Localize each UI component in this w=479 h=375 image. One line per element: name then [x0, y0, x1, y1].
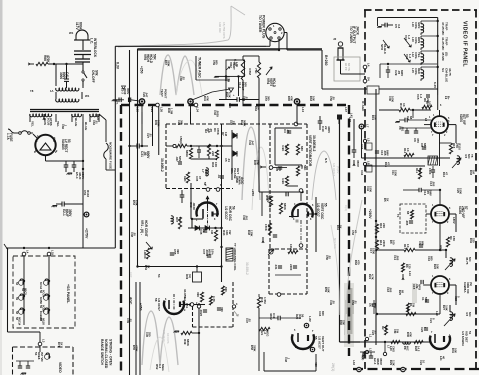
- svg-text:L2: L2: [369, 348, 373, 352]
- svg-text:47: 47: [387, 162, 391, 166]
- svg-text:50V: 50V: [178, 156, 182, 161]
- svg-text:C42: C42: [360, 170, 364, 176]
- svg-text:10%: 10%: [210, 249, 214, 255]
- svg-text:.001: .001: [245, 215, 249, 221]
- svg-text:680: 680: [300, 146, 304, 151]
- svg-text:W1: W1: [85, 94, 90, 98]
- svg-text:IF AGC: IF AGC: [361, 101, 365, 112]
- svg-text:6.8K: 6.8K: [135, 200, 139, 206]
- svg-text:L5: L5: [367, 138, 371, 142]
- svg-text:CHO: CHO: [392, 346, 396, 352]
- svg-text:10K: 10K: [436, 264, 440, 269]
- svg-text:680: 680: [430, 256, 434, 261]
- svg-text:1K: 1K: [339, 225, 343, 229]
- svg-text:5.6K: 5.6K: [327, 287, 331, 293]
- svg-text:1-3: 1-3: [419, 94, 423, 99]
- svg-text:6MV: 6MV: [400, 70, 404, 76]
- svg-text:6BC5: 6BC5: [24, 288, 28, 295]
- svg-text:BLUE: BLUE: [84, 122, 88, 130]
- svg-text:.01: .01: [95, 120, 99, 124]
- svg-text:150(O): 150(O): [179, 136, 183, 146]
- svg-text:SW.: SW.: [94, 70, 98, 76]
- svg-text:22K: 22K: [342, 320, 346, 325]
- svg-text:390(K): 390(K): [361, 352, 365, 360]
- svg-text:56: 56: [203, 182, 207, 186]
- svg-text:CM-BLUE: CM-BLUE: [444, 68, 448, 82]
- svg-text:100K: 100K: [157, 120, 161, 127]
- svg-text:IST VIF: IST VIF: [40, 352, 44, 362]
- svg-text:250: 250: [148, 332, 152, 337]
- svg-text:10K: 10K: [454, 348, 458, 353]
- svg-text:C(3): C(3): [344, 205, 348, 211]
- svg-text:L7: L7: [387, 345, 391, 349]
- svg-text:YEL: YEL: [417, 52, 421, 58]
- svg-text:47: 47: [198, 176, 202, 180]
- svg-text:+SS PANEL: +SS PANEL: [66, 284, 70, 304]
- svg-text:2.2M: 2.2M: [227, 76, 231, 83]
- svg-text:1-3: 1-3: [407, 35, 411, 40]
- svg-text:47K: 47K: [290, 96, 294, 101]
- svg-text:15,750 CPS: 15,750 CPS: [222, 22, 226, 39]
- svg-text:1K: 1K: [147, 265, 151, 269]
- svg-text:390: 390: [176, 249, 180, 254]
- svg-text:HOLD: HOLD: [272, 78, 276, 88]
- svg-text:MEG: MEG: [161, 364, 165, 371]
- svg-text:689X: 689X: [185, 150, 189, 157]
- svg-text:HOR CENT: HOR CENT: [144, 220, 148, 237]
- svg-text:1500: 1500: [372, 248, 376, 255]
- svg-text:L36: L36: [136, 107, 140, 112]
- svg-text:.005: .005: [432, 181, 436, 187]
- svg-text:30-60B-2: 30-60B-2: [160, 158, 164, 172]
- svg-text:ON-OFF: ON-OFF: [91, 70, 95, 83]
- svg-text:390: 390: [180, 120, 184, 125]
- svg-text:57: 57: [464, 206, 468, 210]
- svg-text:390: 390: [220, 307, 224, 312]
- svg-text:350V: 350V: [356, 160, 360, 167]
- svg-text:.02: .02: [248, 318, 252, 322]
- svg-text:HTRS: HTRS: [49, 118, 53, 126]
- svg-text:51: 51: [468, 331, 472, 335]
- svg-text:4.7K: 4.7K: [371, 274, 375, 280]
- svg-text:680: 680: [215, 60, 219, 65]
- svg-text:+250: +250: [251, 189, 255, 196]
- svg-text:1500: 1500: [369, 186, 373, 193]
- svg-text:220K: 220K: [382, 240, 386, 248]
- svg-text:1K: 1K: [386, 198, 390, 202]
- svg-text:L42: L42: [350, 113, 354, 118]
- svg-text:800V: 800V: [146, 151, 150, 159]
- svg-text:NPO: NPO: [418, 284, 422, 291]
- svg-text:L36: L36: [160, 107, 164, 112]
- svg-text:10: 10: [422, 360, 426, 364]
- svg-text:68: 68: [406, 211, 410, 215]
- svg-text:B+: B+: [447, 96, 451, 100]
- svg-text:50K: 50K: [152, 54, 156, 61]
- svg-text:1/2 6CG7: 1/2 6CG7: [316, 203, 320, 217]
- svg-text:560K: 560K: [243, 120, 247, 127]
- svg-text:.01: .01: [227, 158, 231, 162]
- svg-text:.0039: .0039: [192, 202, 196, 210]
- svg-text:YEL: YEL: [31, 121, 35, 127]
- svg-text:L37: L37: [344, 107, 348, 112]
- svg-text:.005: .005: [396, 255, 400, 261]
- svg-text:VID DET: VID DET: [464, 331, 468, 343]
- svg-text:4.7K: 4.7K: [212, 296, 216, 303]
- svg-text:59: 59: [15, 297, 19, 301]
- svg-text:600: 600: [321, 311, 325, 316]
- svg-text:1.8V: 1.8V: [308, 316, 312, 322]
- svg-text:45 MC: 45 MC: [441, 52, 445, 62]
- svg-text:VERT INTEGRATOR: VERT INTEGRATOR: [308, 135, 312, 167]
- svg-text:L3: L3: [42, 339, 46, 343]
- svg-text:N.5: N.5: [324, 158, 328, 163]
- svg-text:.031: .031: [274, 264, 278, 270]
- svg-text:100: 100: [392, 240, 396, 245]
- svg-text:140 OR: 140 OR: [218, 22, 222, 33]
- svg-text:(D): (D): [444, 52, 448, 56]
- svg-text:VIDEO: VIDEO: [58, 362, 62, 373]
- svg-text:.05: .05: [332, 300, 336, 304]
- svg-text:POWER PLUG: POWER PLUG: [261, 15, 265, 39]
- svg-text:52: 52: [15, 282, 19, 286]
- svg-text:100K: 100K: [289, 244, 293, 252]
- svg-text:1500: 1500: [459, 188, 463, 195]
- svg-text:220: 220: [211, 151, 215, 156]
- svg-text:L14: L14: [301, 107, 305, 112]
- svg-text:350V: 350V: [379, 358, 383, 365]
- svg-text:53: 53: [67, 139, 71, 143]
- svg-text:43.75: 43.75: [448, 68, 452, 76]
- svg-text:L19: L19: [51, 250, 55, 255]
- svg-text:1000: 1000: [391, 96, 395, 103]
- svg-text:JACK: JACK: [355, 26, 359, 36]
- svg-text:3.9K: 3.9K: [445, 305, 449, 311]
- svg-text:T8: T8: [30, 89, 34, 93]
- svg-text:TUNER AGC: TUNER AGC: [198, 57, 202, 78]
- svg-text:61.5: 61.5: [267, 224, 271, 230]
- svg-text:53: 53: [465, 114, 469, 118]
- svg-text:470: 470: [357, 260, 361, 265]
- svg-text:6CG4: 6CG4: [42, 290, 46, 298]
- svg-text:BRN: BRN: [417, 37, 421, 43]
- svg-text:1/2 6AW8A: 1/2 6AW8A: [461, 331, 465, 347]
- svg-text:L7: L7: [366, 124, 370, 128]
- svg-text:55: 55: [324, 203, 328, 207]
- svg-text:27K: 27K: [256, 160, 260, 165]
- svg-text:.01: .01: [245, 96, 249, 100]
- svg-text:L6: L6: [367, 161, 371, 165]
- svg-text:.001: .001: [401, 126, 405, 132]
- svg-text:56: 56: [188, 303, 192, 307]
- svg-text:6.3V: 6.3V: [116, 62, 120, 70]
- svg-text:47K: 47K: [206, 96, 210, 101]
- svg-text:R5: R5: [284, 145, 288, 149]
- svg-text:BLUE: BLUE: [74, 118, 78, 126]
- svg-text:NORMAL-CLOSED: NORMAL-CLOSED: [104, 339, 108, 369]
- svg-text:TRAP: TRAP: [444, 37, 448, 45]
- svg-text:54: 54: [157, 274, 161, 278]
- svg-text:+250: +250: [140, 66, 144, 74]
- svg-text:L29: L29: [150, 107, 154, 112]
- svg-text:68: 68: [401, 290, 405, 294]
- svg-text:1500: 1500: [428, 168, 432, 175]
- svg-text:.05: .05: [286, 129, 290, 133]
- svg-text:50V P-P: 50V P-P: [162, 330, 166, 341]
- svg-text:VR1 - (8) -: VR1 - (8) -: [140, 220, 144, 235]
- svg-text:6.3V: 6.3V: [433, 82, 437, 88]
- svg-text:470K: 470K: [46, 55, 50, 63]
- svg-text:1500: 1500: [394, 170, 398, 177]
- svg-text:.047: .047: [251, 140, 255, 146]
- svg-text:56: 56: [232, 206, 236, 210]
- svg-text:60(C)4: 60(C)4: [18, 317, 22, 326]
- svg-text:.005: .005: [389, 287, 393, 293]
- svg-text:L.C.: L.C.: [90, 38, 94, 44]
- svg-text:3.9K: 3.9K: [281, 178, 285, 185]
- svg-text:1-3: 1-3: [408, 54, 412, 59]
- svg-text:470K: 470K: [216, 128, 220, 136]
- svg-text:47K: 47K: [409, 332, 413, 337]
- svg-text:8.2K: 8.2K: [228, 92, 232, 98]
- svg-text:VIDEO IF PANEL: VIDEO IF PANEL: [462, 21, 468, 67]
- svg-text:VERT OSC: VERT OSC: [320, 203, 324, 220]
- svg-text:L4: L4: [26, 250, 30, 254]
- svg-text:470: 470: [416, 138, 420, 143]
- svg-text:6(U)8: 6(U)8: [42, 318, 46, 325]
- svg-text:LIN: LIN: [235, 62, 239, 67]
- svg-text:2.2K: 2.2K: [392, 360, 396, 366]
- svg-text:1/2 6CG7: 1/2 6CG7: [332, 163, 336, 176]
- svg-text:1/2 6CG7: 1/2 6CG7: [224, 206, 228, 220]
- svg-text:.01: .01: [354, 300, 358, 304]
- svg-text:47: 47: [354, 230, 358, 234]
- svg-text:S4: S4: [441, 68, 445, 72]
- svg-text:.01: .01: [149, 133, 153, 137]
- svg-text:56: 56: [301, 314, 305, 318]
- svg-text:350V: 350V: [68, 209, 72, 217]
- svg-text:+275V: +275V: [85, 228, 89, 239]
- svg-text:AGC: AGC: [129, 297, 133, 305]
- svg-text:YEL: YEL: [56, 121, 60, 127]
- svg-text:820: 820: [224, 287, 228, 292]
- svg-text:RANGE SWITCH: RANGE SWITCH: [100, 339, 104, 365]
- svg-text:180V: 180V: [452, 217, 456, 224]
- svg-text:41.25 MC: 41.25 MC: [441, 37, 445, 51]
- svg-text:1W: 1W: [396, 329, 400, 334]
- svg-text:58: 58: [15, 311, 19, 315]
- svg-text:47.25 MC: 47.25 MC: [441, 22, 445, 36]
- svg-text:TT HORIZING COIL: TT HORIZING COIL: [233, 243, 237, 271]
- svg-text:(S): (S): [469, 282, 473, 286]
- svg-text:50V: 50V: [244, 82, 248, 87]
- svg-text:L8: L8: [424, 118, 428, 122]
- svg-text:14.3: 14.3: [417, 346, 421, 352]
- svg-text:1.5M: 1.5M: [263, 297, 267, 304]
- svg-text:B: B: [184, 297, 186, 300]
- svg-text:AGC: AGC: [240, 177, 244, 185]
- svg-text:1W: 1W: [228, 230, 232, 235]
- svg-text:.0039: .0039: [216, 110, 220, 117]
- svg-text:L4: L4: [367, 63, 371, 67]
- svg-text:180K: 180K: [418, 168, 422, 176]
- svg-text:680K: 680K: [283, 203, 287, 211]
- svg-text:DET: DET: [236, 168, 240, 174]
- svg-text:82-BLK: 82-BLK: [383, 44, 387, 55]
- svg-text:47: 47: [445, 172, 449, 176]
- svg-text:3.3: 3.3: [397, 24, 401, 29]
- svg-text:+260V: +260V: [368, 209, 372, 219]
- svg-text:STRONG - OPEN: STRONG - OPEN: [108, 339, 112, 366]
- svg-text:.05: .05: [133, 232, 137, 236]
- svg-text:.047: .047: [145, 92, 149, 98]
- svg-text:680: 680: [421, 241, 425, 246]
- svg-text:330K: 330K: [167, 60, 171, 67]
- svg-text:FUSE: FUSE: [9, 133, 13, 142]
- svg-text:.02: .02: [328, 255, 332, 259]
- svg-text:.05: .05: [209, 128, 213, 132]
- svg-text:HIC: HIC: [406, 346, 410, 351]
- svg-text:(A): (A): [188, 274, 192, 278]
- svg-text:220: 220: [472, 238, 476, 243]
- svg-text:2200: 2200: [289, 264, 293, 271]
- svg-text:400V: 400V: [266, 196, 270, 203]
- svg-text:12V: 12V: [435, 311, 439, 316]
- svg-text:.05: .05: [332, 96, 336, 100]
- svg-text:1M: 1M: [210, 230, 214, 235]
- svg-text:100: 100: [428, 101, 432, 106]
- svg-text:C41: C41: [65, 72, 69, 78]
- svg-text:400V: 400V: [327, 126, 331, 134]
- svg-text:560: 560: [424, 297, 428, 302]
- svg-text:470K: 470K: [135, 345, 139, 352]
- svg-text:1W: 1W: [412, 303, 416, 308]
- svg-text:62K: 62K: [183, 176, 187, 182]
- svg-text:(E)10: (E)10: [458, 143, 462, 150]
- svg-text:R103: R103: [86, 190, 90, 197]
- svg-text:30-650-2: 30-650-2: [245, 262, 249, 275]
- svg-text:120: 120: [408, 264, 412, 269]
- svg-text:1A: 1A: [50, 89, 54, 93]
- svg-text:1/2 6CS7: 1/2 6CS7: [157, 298, 161, 311]
- svg-text:W1: W1: [69, 31, 74, 35]
- svg-text:TEST: TEST: [160, 89, 164, 97]
- svg-text:T5: T5: [470, 154, 474, 158]
- svg-text:1M: 1M: [224, 132, 228, 137]
- svg-text:L43: L43: [352, 360, 356, 365]
- svg-text:L34: L34: [196, 107, 200, 112]
- svg-text:HOR OSC: HOR OSC: [228, 206, 232, 222]
- svg-text:.0025: .0025: [199, 309, 203, 317]
- svg-text:MEG: MEG: [266, 330, 270, 337]
- svg-text:2H(1): 2H(1): [331, 363, 335, 371]
- svg-text:GRN: GRN: [417, 22, 421, 28]
- svg-text:3.5M: 3.5M: [248, 68, 252, 75]
- svg-text:S4: S4: [367, 77, 371, 81]
- svg-text:30-60EM-2: 30-60EM-2: [312, 135, 316, 151]
- svg-text:60 CPS: 60 CPS: [166, 333, 170, 344]
- svg-text:10K: 10K: [374, 115, 378, 120]
- svg-text:1.2M: 1.2M: [170, 108, 174, 115]
- svg-text:10K: 10K: [312, 96, 316, 101]
- svg-text:6MV: 6MV: [429, 190, 433, 196]
- svg-text:VERT OUT: VERT OUT: [321, 336, 325, 352]
- svg-text:T1: T1: [396, 214, 400, 218]
- svg-text:6MV: 6MV: [386, 150, 390, 156]
- svg-text:47: 47: [202, 229, 206, 233]
- svg-text:6CB6: 6CB6: [39, 297, 43, 304]
- svg-text:68: 68: [409, 116, 413, 120]
- svg-text:C43: C43: [360, 144, 364, 150]
- svg-text:NO(18)WIRE FUSE: NO(18)WIRE FUSE: [109, 142, 113, 169]
- svg-text:6CB6: 6CB6: [42, 305, 46, 312]
- svg-text:INTERLOCK: INTERLOCK: [93, 38, 97, 58]
- svg-text:.005: .005: [405, 220, 409, 226]
- svg-text:.22: .22: [232, 120, 236, 124]
- svg-text:55: 55: [314, 336, 318, 340]
- svg-text:1/2 6CS7: 1/2 6CS7: [318, 336, 322, 349]
- svg-text:.05: .05: [374, 330, 378, 334]
- svg-text:680K: 680K: [186, 339, 190, 347]
- svg-text:TRAP: TRAP: [444, 22, 448, 30]
- svg-text:56K: 56K: [303, 165, 307, 171]
- svg-text:330K: 330K: [253, 345, 257, 352]
- svg-text:40: 40: [442, 356, 446, 360]
- svg-text:L1A: L1A: [408, 271, 412, 276]
- svg-text:B+260: B+260: [324, 55, 328, 66]
- svg-text:RED: RED: [417, 68, 421, 74]
- svg-text:60 TS: 60 TS: [347, 63, 351, 71]
- svg-text:120K: 120K: [250, 230, 254, 237]
- svg-text:60(A): 60(A): [78, 22, 82, 31]
- svg-text:POINT: POINT: [163, 89, 167, 98]
- svg-text:J2: J2: [333, 37, 337, 41]
- svg-text:.02: .02: [129, 318, 133, 322]
- svg-text:6CG4: 6CG4: [39, 282, 43, 290]
- svg-text:.02: .02: [182, 76, 186, 80]
- svg-text:390: 390: [267, 96, 271, 101]
